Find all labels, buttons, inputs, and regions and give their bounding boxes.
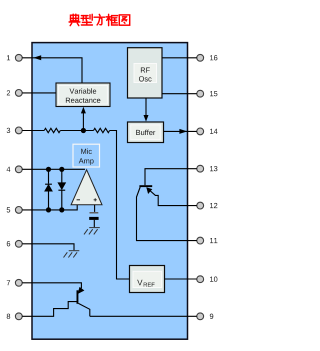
capacitor C1 under op-amp plus input <box>89 205 98 227</box>
pin 11 circle <box>197 237 218 244</box>
Q2 emitter diagonal with arrowhead (points down-left into bar) <box>79 288 81 290</box>
op-amp U1 triangle (points up) <box>71 170 102 205</box>
ground under capacitor <box>84 228 100 235</box>
wire Buffer to pin14 <box>164 130 197 132</box>
典 <box>69 14 80 25</box>
Q2 collector to pin9 wire <box>78 303 89 316</box>
node dots pin5 wire <box>46 207 51 212</box>
pin 1 circle <box>7 54 22 61</box>
variable reactance box <box>56 83 110 107</box>
图 <box>119 15 129 25</box>
wire pin7 to transistor Q2 emitter <box>22 283 81 288</box>
pin 16 circle <box>197 54 218 61</box>
pin 2 circle <box>7 90 22 97</box>
wire R2 to VREF (long vertical) <box>110 131 130 280</box>
pin 13 circle <box>197 165 218 172</box>
pin 8 circle <box>7 313 23 320</box>
node junction dot on pin3 wire <box>81 128 86 133</box>
resistor R2 <box>94 128 110 132</box>
VREF box <box>130 266 165 293</box>
transistor Q2 <box>22 287 90 316</box>
wire R1 to R2 <box>60 130 93 132</box>
wire pin6 to ground <box>22 244 74 250</box>
diode D2 (right, pointing down) <box>58 169 65 210</box>
Q1 base bar <box>139 185 152 187</box>
resistor R1 <box>44 128 60 132</box>
pin 9 circle <box>197 313 214 320</box>
框 <box>106 14 117 25</box>
Q1 emitter arrowhead (points up-left into bar) <box>146 187 152 194</box>
pin 12 circle <box>197 202 218 209</box>
wire pin9 <box>90 315 197 317</box>
pin 14 circle <box>197 128 218 135</box>
arrowhead pin1 (points left) <box>33 55 41 60</box>
RF Osc box U-outer <box>128 48 163 98</box>
wire pin4 to op-amp <box>22 168 85 170</box>
diode D1 (left, pointing up) <box>45 169 52 210</box>
pin 4 circle <box>7 166 23 173</box>
arrowhead into Buffer top (points down) <box>144 115 149 122</box>
pin 10 circle <box>197 276 218 283</box>
pin 6 circle <box>7 240 22 247</box>
Q2 base from pin8 staircase <box>22 302 76 317</box>
Q2 base bar <box>77 290 79 304</box>
wire pin3 with resistors <box>22 130 44 132</box>
pin 15 circle <box>197 90 218 97</box>
title 典型方框图 <box>69 14 130 25</box>
ground at pin6 <box>64 251 80 258</box>
pin 3 circle <box>7 127 23 134</box>
型 <box>81 14 92 25</box>
wire pin1 to Variable Reactance top <box>22 58 82 83</box>
wire VREF to pin10 <box>165 278 197 280</box>
wire pin13 to transistor Q1 base <box>145 169 197 186</box>
pin 5 circle <box>7 207 23 214</box>
wire RF Osc to pin16 <box>162 57 197 59</box>
wire junction to Variable Reactance bottom <box>82 110 84 131</box>
wire RF Osc down to Buffer <box>145 98 147 117</box>
Q1 emitter diagonal to pin12 <box>147 188 197 206</box>
wire pin5 with stub to op-amp minus input <box>22 205 77 210</box>
transistor Q1 <box>137 185 197 240</box>
方 <box>94 14 105 25</box>
Mic Amp label box <box>73 144 100 167</box>
arrowhead at pin14 (points right) <box>179 129 187 134</box>
buffer box <box>128 122 164 143</box>
Q1 collector to pin11 <box>137 187 197 241</box>
node dots pin4 wire <box>46 167 51 172</box>
wire pin2 to Variable Reactance left <box>22 92 56 94</box>
arrowhead into Variable Reactance bottom (points up) <box>81 107 86 114</box>
IC body <box>32 43 188 340</box>
wire RF Osc to pin15 <box>162 93 197 95</box>
pin 7 circle <box>7 279 22 286</box>
